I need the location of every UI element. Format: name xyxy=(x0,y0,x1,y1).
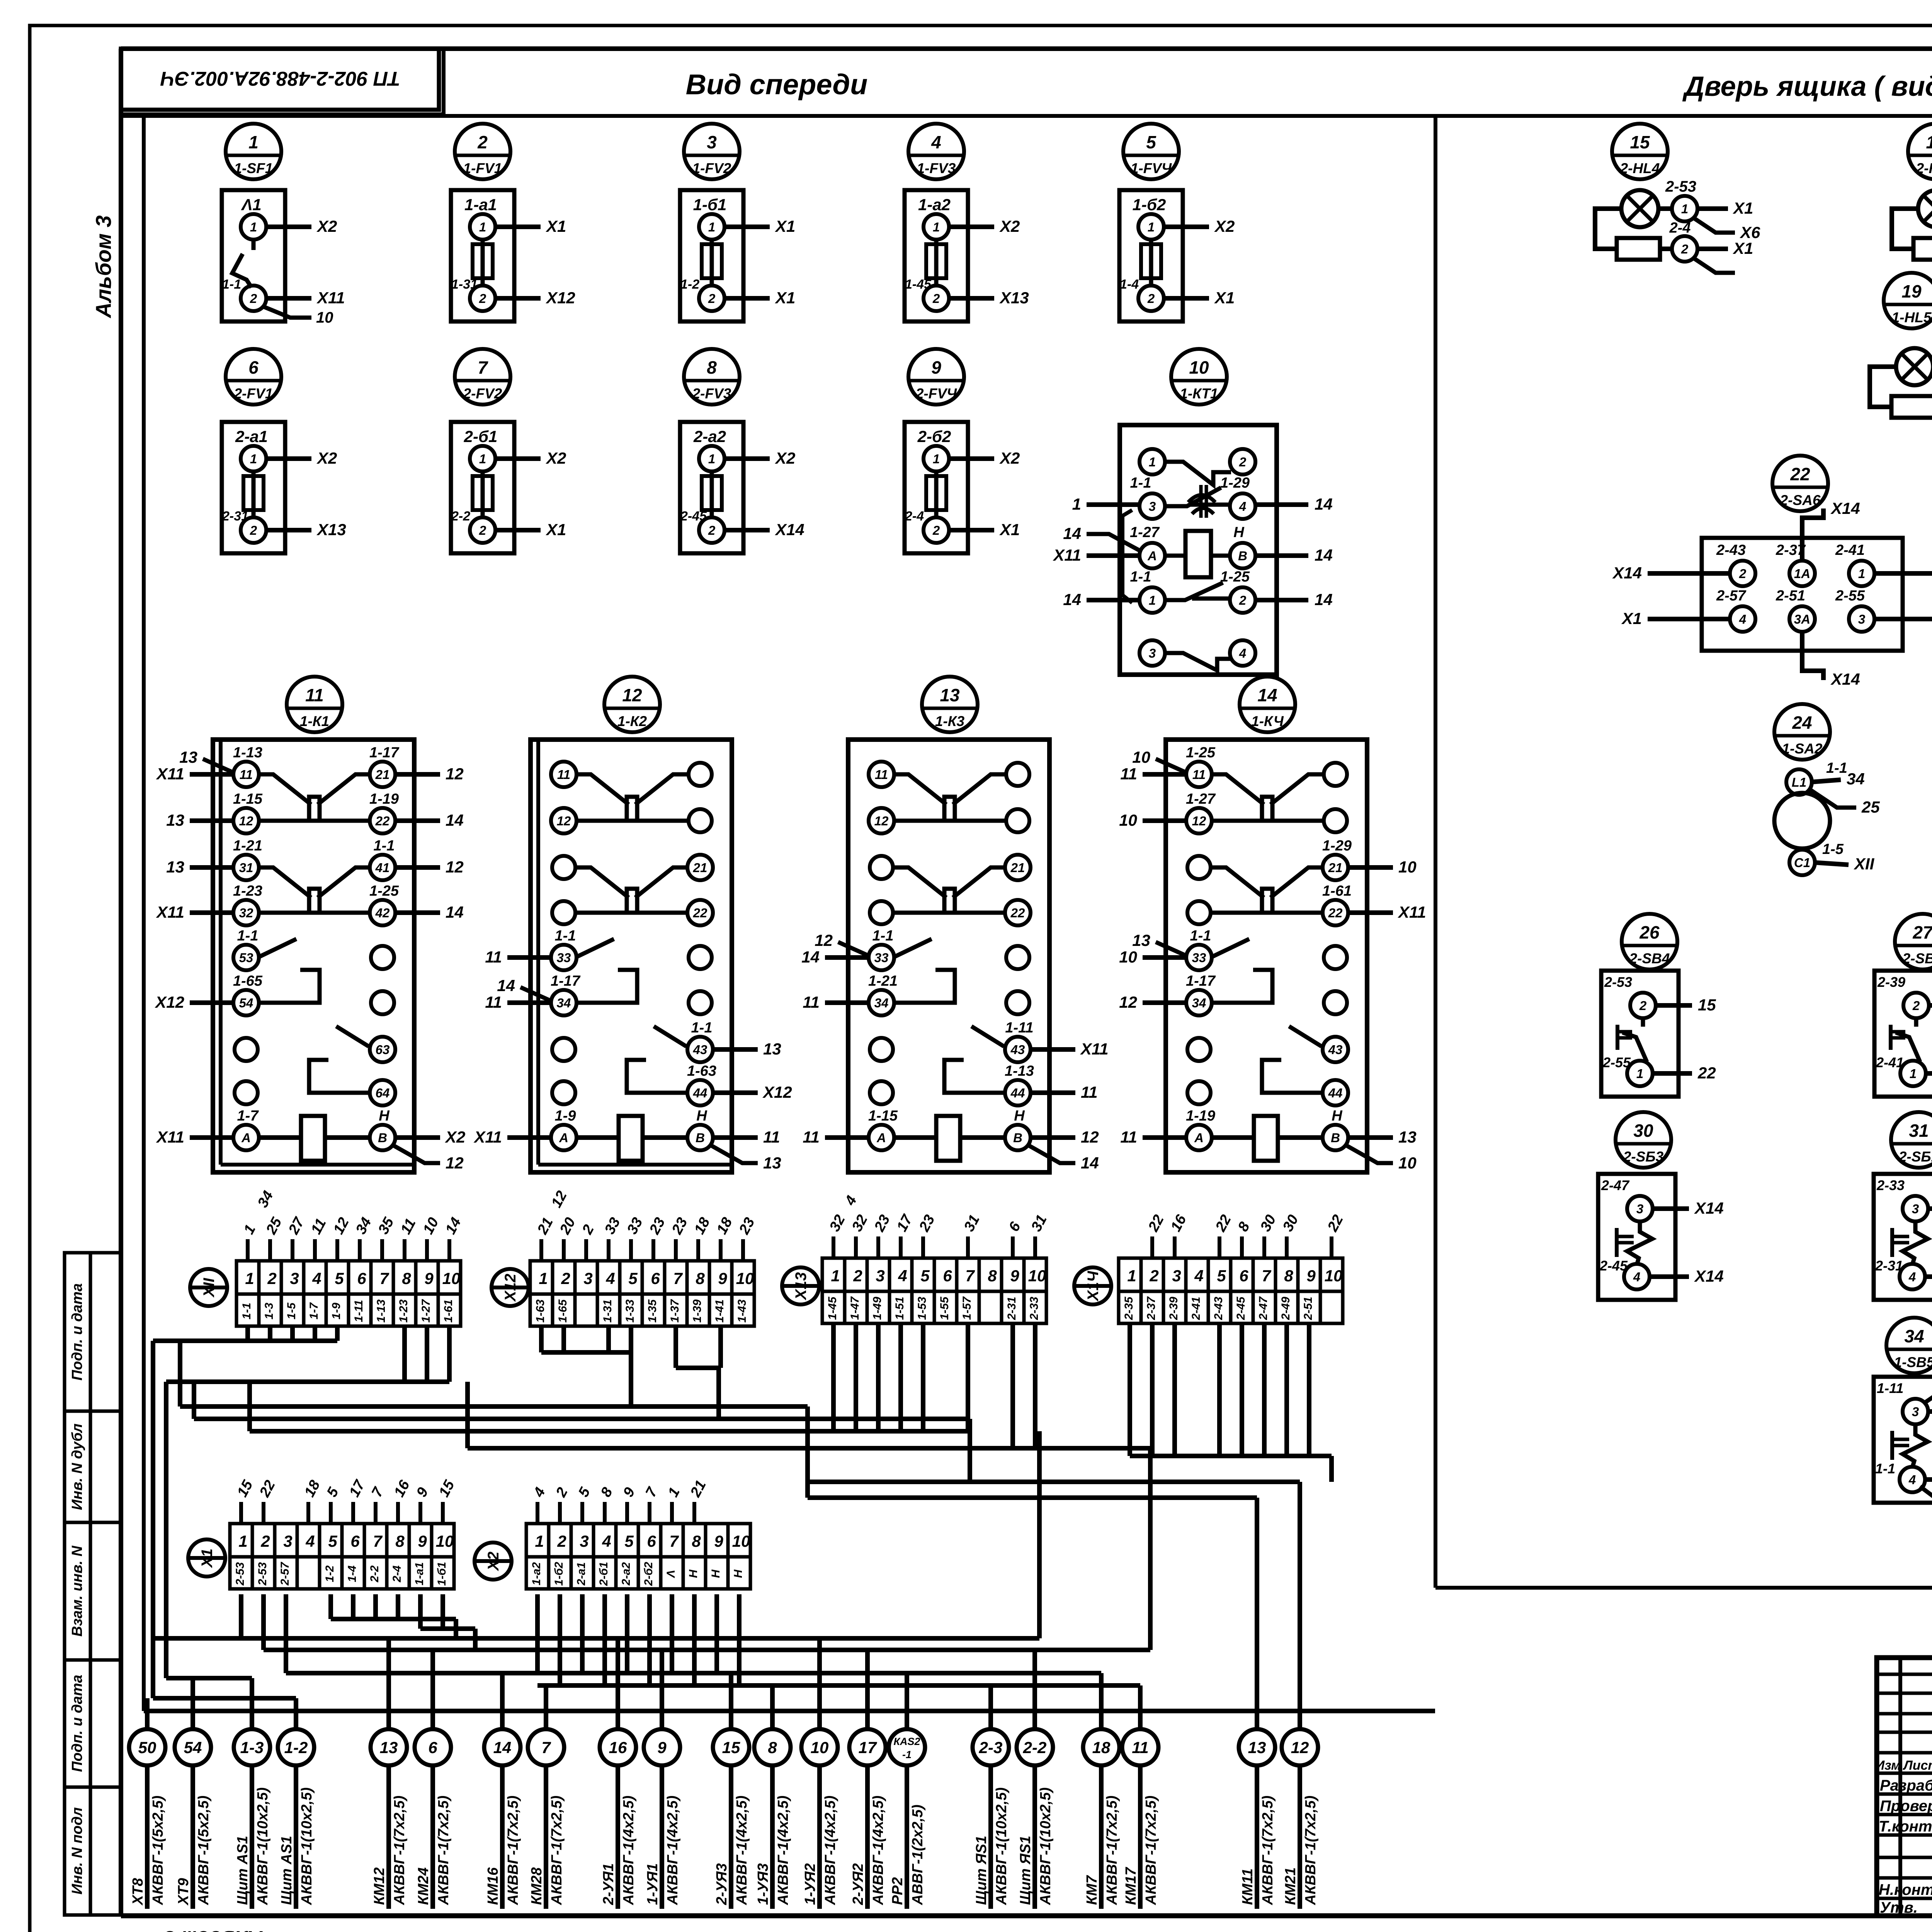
svg-text:1-11: 1-11 xyxy=(352,1300,365,1322)
svg-text:13: 13 xyxy=(1248,1738,1266,1757)
svg-text:8: 8 xyxy=(1284,1267,1293,1285)
svg-text:8: 8 xyxy=(692,1532,701,1550)
svg-text:В: В xyxy=(696,1131,705,1145)
svg-text:А: А xyxy=(559,1131,568,1145)
svg-text:2-НL3: 2-НL3 xyxy=(1916,160,1932,176)
svg-text:Н: Н xyxy=(1233,524,1245,541)
svg-text:Х1: Х1 xyxy=(999,520,1020,539)
svg-text:2-41: 2-41 xyxy=(1190,1297,1202,1320)
svg-text:34: 34 xyxy=(557,996,571,1010)
svg-text:2-47: 2-47 xyxy=(1257,1296,1270,1320)
svg-text:Щит ЯS1: Щит ЯS1 xyxy=(1017,1836,1034,1905)
svg-text:2-а2: 2-а2 xyxy=(620,1562,633,1586)
svg-text:3А: 3А xyxy=(1794,612,1810,626)
svg-text:34: 34 xyxy=(1904,1326,1924,1346)
svg-text:13: 13 xyxy=(940,685,960,705)
svg-text:Х14: Х14 xyxy=(775,520,804,539)
svg-text:КМ28: КМ28 xyxy=(529,1867,545,1905)
svg-text:1-13: 1-13 xyxy=(1005,1063,1034,1079)
svg-text:13: 13 xyxy=(1132,931,1150,949)
svg-text:1-41: 1-41 xyxy=(713,1299,726,1323)
svg-text:3: 3 xyxy=(1172,1267,1181,1285)
svg-text:2-49: 2-49 xyxy=(1279,1297,1292,1320)
svg-text:Х2: Х2 xyxy=(445,1128,465,1146)
svg-text:2-2: 2-2 xyxy=(1023,1738,1047,1757)
svg-text:Х14: Х14 xyxy=(1830,499,1860,517)
svg-text:1-а2: 1-а2 xyxy=(918,196,951,214)
svg-text:1-1: 1-1 xyxy=(1130,569,1151,585)
svg-text:4: 4 xyxy=(605,1269,615,1287)
svg-text:1-13: 1-13 xyxy=(233,745,262,761)
svg-text:54: 54 xyxy=(184,1738,202,1757)
svg-text:ХТ8: ХТ8 xyxy=(130,1878,146,1906)
svg-text:1-21: 1-21 xyxy=(868,973,898,989)
svg-text:6: 6 xyxy=(1239,1267,1248,1285)
svg-text:Н: Н xyxy=(379,1108,390,1124)
svg-text:2-2: 2-2 xyxy=(368,1565,381,1583)
svg-text:1-FV1: 1-FV1 xyxy=(463,160,502,176)
svg-text:1-4: 1-4 xyxy=(346,1565,359,1582)
svg-text:2: 2 xyxy=(557,1532,566,1550)
svg-text:А: А xyxy=(1147,549,1157,563)
svg-text:Λ: Λ xyxy=(665,1570,677,1578)
svg-text:14: 14 xyxy=(1063,590,1081,609)
svg-text:1: 1 xyxy=(535,1532,544,1550)
svg-text:8: 8 xyxy=(768,1738,777,1757)
svg-text:2-4: 2-4 xyxy=(905,509,924,524)
svg-text:2-55: 2-55 xyxy=(1835,588,1865,604)
svg-text:41: 41 xyxy=(375,861,390,875)
svg-text:2-43: 2-43 xyxy=(1212,1297,1225,1320)
svg-text:2-б2: 2-б2 xyxy=(642,1562,655,1586)
svg-text:2-б1: 2-б1 xyxy=(464,427,498,446)
svg-text:1-29: 1-29 xyxy=(1322,838,1352,854)
svg-text:9: 9 xyxy=(1010,1267,1019,1285)
svg-text:3: 3 xyxy=(1149,646,1156,660)
svg-text:Х2: Х2 xyxy=(999,217,1020,235)
svg-text:Х1: Х1 xyxy=(546,520,566,539)
svg-text:Щит АS1: Щит АS1 xyxy=(235,1836,251,1905)
svg-text:4: 4 xyxy=(1908,1473,1916,1487)
svg-text:2-НL4: 2-НL4 xyxy=(1620,160,1660,176)
svg-text:1-б2: 1-б2 xyxy=(553,1562,565,1586)
svg-text:2-а1: 2-а1 xyxy=(575,1562,588,1586)
svg-text:22: 22 xyxy=(1010,906,1025,920)
svg-text:1-33: 1-33 xyxy=(624,1299,636,1323)
svg-text:30: 30 xyxy=(1633,1121,1653,1141)
svg-text:3: 3 xyxy=(580,1532,588,1550)
svg-text:Щит АS1: Щит АS1 xyxy=(279,1836,295,1905)
svg-text:АКВВГ-1(4х2,5): АКВВГ-1(4х2,5) xyxy=(775,1796,791,1905)
svg-text:1-б1: 1-б1 xyxy=(435,1562,448,1586)
svg-text:7: 7 xyxy=(1262,1267,1271,1285)
svg-text:13: 13 xyxy=(763,1154,781,1172)
svg-text:Х14: Х14 xyxy=(1830,670,1860,688)
svg-text:В: В xyxy=(1331,1131,1340,1145)
svg-text:2-53: 2-53 xyxy=(234,1562,247,1586)
svg-text:13: 13 xyxy=(380,1738,398,1757)
svg-text:9: 9 xyxy=(714,1532,723,1550)
svg-text:1-2: 1-2 xyxy=(680,277,699,292)
svg-text:2-а1: 2-а1 xyxy=(235,427,268,446)
svg-text:2-35: 2-35 xyxy=(1122,1296,1135,1320)
svg-text:КМ17: КМ17 xyxy=(1123,1867,1139,1905)
svg-text:22: 22 xyxy=(1328,906,1343,920)
svg-text:Х14: Х14 xyxy=(1694,1267,1724,1285)
svg-text:16: 16 xyxy=(609,1738,627,1757)
svg-text:В: В xyxy=(1238,549,1247,563)
svg-text:8: 8 xyxy=(402,1269,411,1287)
svg-text:2-51: 2-51 xyxy=(1776,588,1805,604)
svg-text:54: 54 xyxy=(239,996,253,1010)
svg-text:АКВВГ-1(7х2,5): АКВВГ-1(7х2,5) xyxy=(505,1796,521,1905)
svg-text:Х2: Х2 xyxy=(485,1552,502,1571)
svg-text:2-FV1: 2-FV1 xyxy=(234,386,273,401)
svg-text:1-17: 1-17 xyxy=(1186,973,1216,989)
svg-text:1-FV2: 1-FV2 xyxy=(692,160,731,176)
svg-text:Х1Ч: Х1Ч xyxy=(1085,1271,1102,1302)
svg-text:Х11: Х11 xyxy=(156,765,184,783)
svg-text:1-61: 1-61 xyxy=(442,1299,455,1323)
svg-text:1: 1 xyxy=(933,220,940,234)
svg-text:1-5: 1-5 xyxy=(1822,841,1844,857)
svg-text:1-КЧ: 1-КЧ xyxy=(1251,713,1284,729)
svg-text:1-1: 1-1 xyxy=(1826,760,1847,776)
svg-text:2: 2 xyxy=(1912,998,1920,1013)
svg-text:Н: Н xyxy=(709,1569,722,1578)
svg-text:Х11: Х11 xyxy=(156,1128,184,1146)
svg-text:12: 12 xyxy=(1081,1128,1099,1146)
svg-text:1-2: 1-2 xyxy=(323,1565,336,1582)
svg-text:8: 8 xyxy=(696,1269,705,1287)
svg-text:1-25: 1-25 xyxy=(369,883,399,899)
svg-text:5: 5 xyxy=(1217,1267,1226,1285)
svg-text:1: 1 xyxy=(708,220,715,234)
svg-text:АКВВГ-1(4х2,5): АКВВГ-1(4х2,5) xyxy=(734,1796,750,1905)
svg-text:14: 14 xyxy=(1315,590,1333,609)
svg-text:1-3: 1-3 xyxy=(240,1738,264,1757)
svg-text:1-1: 1-1 xyxy=(555,928,576,944)
svg-text:Х11: Х11 xyxy=(316,289,345,307)
svg-text:Х11: Х11 xyxy=(473,1128,502,1146)
svg-text:2: 2 xyxy=(479,291,486,306)
svg-text:Дверь ящика ( вид со стороны м: Дверь ящика ( вид со стороны монтажа) xyxy=(1682,71,1932,102)
svg-text:3: 3 xyxy=(876,1267,884,1285)
svg-text:2-53: 2-53 xyxy=(1604,974,1632,990)
svg-text:1-FV3: 1-FV3 xyxy=(917,160,956,176)
svg-text:9: 9 xyxy=(657,1738,667,1757)
svg-text:6: 6 xyxy=(428,1738,437,1757)
svg-text:11: 11 xyxy=(1192,767,1206,782)
svg-text:Т.контр.: Т.контр. xyxy=(1879,1818,1932,1835)
svg-text:Х6: Х6 xyxy=(1740,223,1760,241)
svg-text:2-SБ1: 2-SБ1 xyxy=(1898,1149,1932,1165)
svg-text:11: 11 xyxy=(1132,1738,1149,1757)
svg-text:Х13: Х13 xyxy=(999,289,1029,307)
svg-text:1-23: 1-23 xyxy=(397,1299,410,1323)
svg-text:2-57: 2-57 xyxy=(279,1562,291,1586)
svg-text:1-1: 1-1 xyxy=(222,277,241,292)
svg-text:В: В xyxy=(1013,1131,1022,1145)
svg-text:Н: Н xyxy=(696,1108,707,1124)
svg-text:1-61: 1-61 xyxy=(1322,883,1352,899)
svg-text:2-УЯ2: 2-УЯ2 xyxy=(850,1863,866,1905)
svg-text:7: 7 xyxy=(669,1532,679,1550)
svg-text:1-1: 1-1 xyxy=(691,1020,713,1036)
svg-text:Х1: Х1 xyxy=(1733,199,1753,217)
svg-text:4: 4 xyxy=(1239,646,1246,660)
svg-text:33: 33 xyxy=(874,951,889,965)
svg-text:Н: Н xyxy=(1014,1108,1025,1124)
svg-text:1-УЯ1: 1-УЯ1 xyxy=(645,1863,661,1905)
svg-text:Х12: Х12 xyxy=(546,289,575,307)
svg-text:2: 2 xyxy=(250,291,257,306)
svg-text:5: 5 xyxy=(624,1532,634,1550)
svg-text:1-15: 1-15 xyxy=(868,1108,898,1124)
svg-text:2-УЯ3: 2-УЯ3 xyxy=(714,1863,730,1905)
svg-text:12: 12 xyxy=(1119,993,1137,1011)
svg-text:14: 14 xyxy=(801,948,820,966)
svg-text:2: 2 xyxy=(853,1267,862,1285)
svg-text:43: 43 xyxy=(1010,1043,1025,1057)
svg-text:7: 7 xyxy=(673,1269,683,1287)
svg-text:7: 7 xyxy=(541,1738,551,1757)
svg-text:1-FVЧ: 1-FVЧ xyxy=(1131,160,1172,176)
svg-text:11: 11 xyxy=(1120,1128,1137,1146)
svg-text:2-51: 2-51 xyxy=(1302,1297,1315,1320)
svg-text:1-37: 1-37 xyxy=(668,1299,681,1323)
svg-text:L1: L1 xyxy=(1792,775,1807,789)
svg-text:34: 34 xyxy=(1847,770,1865,788)
svg-text:33: 33 xyxy=(557,951,571,965)
svg-text:1-17: 1-17 xyxy=(369,745,400,761)
svg-text:4: 4 xyxy=(1239,499,1246,514)
svg-text:А: А xyxy=(241,1131,251,1145)
svg-text:2-39: 2-39 xyxy=(1877,974,1905,990)
svg-text:2-SА6: 2-SА6 xyxy=(1780,492,1821,508)
svg-text:1-39: 1-39 xyxy=(691,1299,704,1323)
svg-text:Х12: Х12 xyxy=(155,993,184,1011)
svg-text:1-б2: 1-б2 xyxy=(1133,196,1166,214)
svg-text:1-УЯ2: 1-УЯ2 xyxy=(802,1863,818,1905)
svg-text:Х13: Х13 xyxy=(793,1272,810,1300)
svg-text:24: 24 xyxy=(1792,713,1812,733)
svg-text:Альбом 3: Альбом 3 xyxy=(163,1927,263,1932)
svg-text:1-31: 1-31 xyxy=(601,1299,614,1323)
svg-text:2: 2 xyxy=(708,523,716,537)
svg-text:1-27: 1-27 xyxy=(420,1299,432,1323)
svg-text:10: 10 xyxy=(316,309,333,326)
svg-text:10: 10 xyxy=(1398,1154,1417,1172)
svg-text:31: 31 xyxy=(1909,1121,1929,1141)
svg-text:43: 43 xyxy=(1328,1043,1343,1057)
svg-text:44: 44 xyxy=(693,1086,707,1100)
svg-text:1-1: 1-1 xyxy=(1190,928,1211,944)
svg-text:9: 9 xyxy=(931,357,941,378)
svg-text:АКВВГ-1(4х2,5): АКВВГ-1(4х2,5) xyxy=(621,1796,637,1905)
svg-text:5: 5 xyxy=(628,1269,638,1287)
svg-text:14: 14 xyxy=(493,1738,512,1757)
svg-text:6: 6 xyxy=(248,357,259,378)
svg-text:1-SF1: 1-SF1 xyxy=(234,160,273,176)
svg-text:22: 22 xyxy=(693,906,707,920)
svg-text:1-51: 1-51 xyxy=(893,1297,906,1320)
svg-text:1-4: 1-4 xyxy=(1120,277,1139,292)
svg-text:3: 3 xyxy=(707,132,717,152)
svg-text:-1: -1 xyxy=(902,1749,912,1760)
svg-text:8: 8 xyxy=(395,1532,405,1550)
svg-text:2-57: 2-57 xyxy=(1716,588,1747,604)
svg-text:Х11: Х11 xyxy=(1398,903,1426,921)
svg-text:1: 1 xyxy=(539,1269,548,1287)
svg-text:Х1: Х1 xyxy=(1214,289,1235,307)
svg-text:3: 3 xyxy=(1912,1202,1919,1216)
svg-text:2-37: 2-37 xyxy=(1145,1296,1158,1320)
svg-text:1-53: 1-53 xyxy=(916,1297,929,1320)
svg-text:5: 5 xyxy=(335,1269,344,1287)
svg-text:25: 25 xyxy=(1861,798,1880,816)
svg-text:1-27: 1-27 xyxy=(1130,524,1160,541)
svg-text:Подп. и дата: Подп. и дата xyxy=(69,1283,85,1381)
svg-text:2-33: 2-33 xyxy=(1028,1297,1041,1320)
svg-text:1-а2: 1-а2 xyxy=(530,1562,543,1585)
svg-text:1-К3: 1-К3 xyxy=(935,713,965,729)
svg-text:1: 1 xyxy=(245,1269,254,1287)
svg-text:5: 5 xyxy=(328,1532,337,1550)
svg-text:1-5: 1-5 xyxy=(285,1302,298,1320)
svg-text:АКВВГ-1(10х2,5): АКВВГ-1(10х2,5) xyxy=(255,1787,271,1905)
svg-text:1-1: 1-1 xyxy=(1875,1461,1895,1476)
svg-text:Щит ЯS1: Щит ЯS1 xyxy=(973,1836,990,1905)
svg-text:14: 14 xyxy=(446,903,464,921)
svg-text:13: 13 xyxy=(179,748,197,766)
svg-text:Утв.: Утв. xyxy=(1880,1899,1918,1916)
svg-text:22: 22 xyxy=(375,814,390,828)
svg-text:10: 10 xyxy=(732,1532,750,1550)
svg-text:1-SВ5: 1-SВ5 xyxy=(1894,1354,1932,1370)
svg-text:Х11: Х11 xyxy=(1053,546,1081,564)
svg-text:АКВВГ-1(4х2,5): АКВВГ-1(4х2,5) xyxy=(822,1796,838,1905)
svg-text:1: 1 xyxy=(250,452,257,466)
svg-text:21: 21 xyxy=(1328,861,1343,875)
svg-text:2: 2 xyxy=(1681,242,1689,256)
svg-text:Подп. и дата: Подп. и дата xyxy=(69,1675,85,1772)
svg-text:2: 2 xyxy=(932,291,940,306)
svg-text:С1: С1 xyxy=(1794,855,1810,870)
svg-text:7: 7 xyxy=(379,1269,389,1287)
svg-text:27: 27 xyxy=(1912,922,1932,942)
svg-text:2: 2 xyxy=(561,1269,570,1287)
svg-text:6: 6 xyxy=(350,1532,360,1550)
svg-text:1-15: 1-15 xyxy=(233,791,263,807)
svg-text:АКВВГ-1(5х2,5): АКВВГ-1(5х2,5) xyxy=(196,1796,212,1905)
svg-text:11: 11 xyxy=(763,1128,780,1146)
svg-text:АКВВГ-1(4х2,5): АКВВГ-1(4х2,5) xyxy=(665,1796,681,1905)
svg-text:Инв. N подл: Инв. N подл xyxy=(69,1807,85,1895)
svg-text:1: 1 xyxy=(238,1532,247,1550)
svg-text:1-7: 1-7 xyxy=(237,1108,259,1124)
svg-text:22: 22 xyxy=(1697,1064,1716,1082)
svg-text:Х2: Х2 xyxy=(316,449,337,467)
svg-text:1-1: 1-1 xyxy=(240,1303,253,1319)
svg-text:2-3: 2-3 xyxy=(979,1738,1003,1757)
svg-text:2-33: 2-33 xyxy=(1876,1177,1905,1193)
svg-text:4: 4 xyxy=(931,132,941,152)
svg-text:Х11: Х11 xyxy=(156,903,184,921)
svg-text:5: 5 xyxy=(920,1267,930,1285)
svg-text:4: 4 xyxy=(312,1269,321,1287)
svg-text:2: 2 xyxy=(477,132,488,152)
svg-text:6: 6 xyxy=(357,1269,366,1287)
svg-text:2-SВ4: 2-SВ4 xyxy=(1629,951,1670,966)
svg-text:АВВГ-1(2х2,5): АВВГ-1(2х2,5) xyxy=(910,1804,926,1905)
svg-text:63: 63 xyxy=(376,1043,390,1057)
svg-text:11: 11 xyxy=(1120,765,1137,783)
svg-text:10: 10 xyxy=(1398,858,1417,876)
svg-text:11: 11 xyxy=(1081,1083,1098,1101)
svg-text:1-17: 1-17 xyxy=(551,973,581,989)
svg-text:2-SВ2: 2-SВ2 xyxy=(1902,951,1932,966)
svg-text:14: 14 xyxy=(1315,495,1333,513)
svg-text:10: 10 xyxy=(442,1269,461,1287)
svg-text:1-25: 1-25 xyxy=(1186,745,1216,761)
svg-text:Х1: Х1 xyxy=(199,1549,216,1568)
svg-text:1-23: 1-23 xyxy=(233,883,262,899)
svg-text:Инв. N дубл: Инв. N дубл xyxy=(69,1423,85,1510)
svg-text:44: 44 xyxy=(1328,1086,1343,1100)
svg-text:АКВВГ-1(10х2,5): АКВВГ-1(10х2,5) xyxy=(1037,1787,1054,1905)
svg-text:Х2: Х2 xyxy=(546,449,566,467)
svg-text:АКВВГ-1(7х2,5): АКВВГ-1(7х2,5) xyxy=(435,1796,452,1905)
svg-text:5: 5 xyxy=(1146,132,1156,152)
svg-text:Х2: Х2 xyxy=(999,449,1020,467)
svg-text:9: 9 xyxy=(1306,1267,1316,1285)
svg-text:14: 14 xyxy=(1081,1154,1099,1172)
svg-text:3: 3 xyxy=(1858,612,1865,626)
svg-text:9: 9 xyxy=(424,1269,434,1287)
svg-text:1-19: 1-19 xyxy=(1186,1108,1215,1124)
svg-text:43: 43 xyxy=(693,1043,707,1057)
svg-text:1-13: 1-13 xyxy=(375,1299,388,1323)
svg-text:3: 3 xyxy=(283,1532,292,1550)
svg-text:10: 10 xyxy=(1325,1267,1343,1285)
svg-text:АКВВГ-1(7х2,5): АКВВГ-1(7х2,5) xyxy=(391,1796,408,1905)
svg-text:1: 1 xyxy=(831,1267,840,1285)
svg-text:9: 9 xyxy=(718,1269,727,1287)
svg-text:Н: Н xyxy=(1332,1108,1343,1124)
svg-text:2: 2 xyxy=(267,1269,276,1287)
svg-text:2-39: 2-39 xyxy=(1167,1297,1180,1320)
svg-text:14: 14 xyxy=(446,811,464,829)
svg-text:АКВВГ-1(4х2,5): АКВВГ-1(4х2,5) xyxy=(870,1796,886,1905)
svg-text:2: 2 xyxy=(932,523,940,537)
svg-text:1: 1 xyxy=(1072,495,1081,513)
svg-text:21: 21 xyxy=(693,861,707,875)
svg-text:1-НL5: 1-НL5 xyxy=(1892,310,1932,325)
svg-text:10: 10 xyxy=(436,1532,454,1550)
svg-text:33: 33 xyxy=(1192,951,1206,965)
svg-text:2-41: 2-41 xyxy=(1835,542,1865,558)
svg-text:15: 15 xyxy=(1698,996,1716,1014)
svg-text:10: 10 xyxy=(811,1738,829,1757)
svg-text:3: 3 xyxy=(1149,499,1156,514)
svg-text:15: 15 xyxy=(722,1738,740,1757)
svg-text:1-2: 1-2 xyxy=(284,1738,308,1757)
svg-text:7: 7 xyxy=(373,1532,383,1550)
svg-text:АКВВГ-1(7х2,5): АКВВГ-1(7х2,5) xyxy=(1104,1796,1120,1905)
svg-text:1: 1 xyxy=(933,452,940,466)
svg-text:21: 21 xyxy=(1010,861,1025,875)
